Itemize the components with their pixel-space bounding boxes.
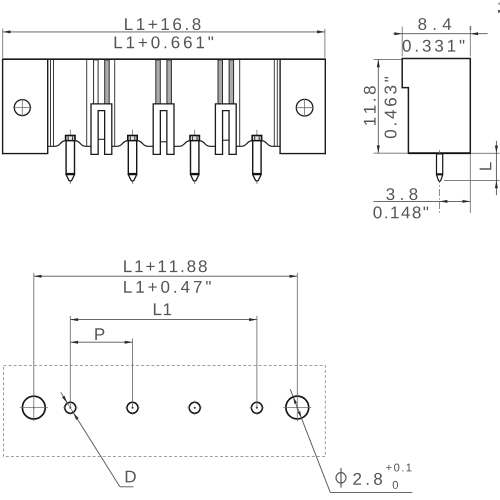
pin hole 1 (small) (63, 401, 78, 416)
solder pin 2, front view (128, 130, 137, 184)
leader Φ2.8 +0.1/0 for mounting hole (290, 389, 412, 492)
right flange mounting hole (296, 99, 314, 116)
contact fork 1, front view (91, 60, 112, 154)
dimension L1 (70, 303, 257, 407)
dimension 8.4 / 0.331" side view width (393, 18, 487, 56)
pin hole 3 (small) (187, 401, 202, 416)
mounting hole right (large) (283, 394, 311, 421)
side view housing body (402, 59, 470, 154)
side view solder pin (437, 150, 443, 213)
dimension 11.8 / 0.463" side view height (364, 59, 408, 153)
solder pin 1, front view (66, 130, 75, 184)
pin hole 4 (small) (250, 401, 265, 416)
left flange mounting hole (13, 99, 32, 116)
pin hole 2 (small) (125, 401, 140, 416)
dimension L pin length (444, 141, 500, 195)
front view housing body outline (2, 59, 326, 155)
edge marks (470, 3, 500, 30)
dimension L1+16.8 / L1+0.661" overall width, front view (3, 18, 325, 58)
contact fork 3, front view (215, 60, 236, 154)
housing cavity edge lines (87, 60, 240, 146)
leader D for pin hole diameter (61, 392, 136, 487)
dimension 3.8 / 0.148" pin offset (373, 154, 470, 218)
contact fork 2, front view (153, 60, 174, 154)
dimension L1+11.88 / L1+0.47" hole span (34, 260, 298, 396)
solder pin 3, front view (190, 130, 199, 184)
drilling plan board outline (dashed) (4, 365, 326, 456)
dimension P pitch (70, 328, 132, 407)
mounting hole left (large) (20, 394, 48, 421)
housing scalloped bottom edge (48, 141, 279, 147)
solder pin 4, front view (252, 130, 261, 184)
